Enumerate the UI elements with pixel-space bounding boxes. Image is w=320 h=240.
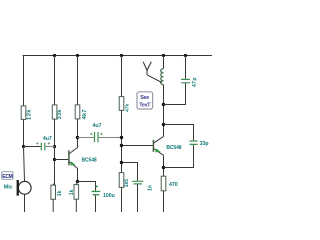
capacitor C4 bypass plates (132, 181, 143, 184)
plus mark input cap right (48, 142, 50, 144)
wire node to mic (24, 147, 25, 182)
svg-text:1k: 1k (69, 189, 75, 195)
capacitor C2 4u7 interstage right lead (99, 137, 122, 139)
node tank junction (162, 103, 165, 106)
plus mark interstage cap right (100, 133, 102, 135)
svg-text:4k7: 4k7 (82, 109, 88, 119)
transistor Q2 emitter diagonal (154, 149, 164, 156)
resistor R4 emitter Q1 (74, 185, 79, 200)
inductor L1 coil (161, 69, 164, 85)
wire 4k7 to collector Q1 (77, 119, 79, 148)
wire feedback loop top (164, 125, 194, 141)
svg-text:1k5: 1k5 (124, 179, 130, 188)
svg-text:33p: 33p (200, 141, 209, 147)
wire feedback loop bottom (164, 145, 194, 168)
wire 47k down to bottom resistor (121, 110, 123, 173)
capacitor C3 100u electro plates (92, 191, 101, 194)
svg-text:See: See (140, 95, 149, 101)
wire electro to bottom (95, 195, 97, 212)
node rail col E (162, 54, 165, 57)
transistor Q1 emitter diagonal (69, 162, 77, 169)
wire emitter node to electro cap (78, 182, 96, 191)
capacitor C2 4u7 interstage left lead (78, 137, 94, 139)
wire 33k node into R5 (53, 183, 54, 185)
node base Q1 junction (53, 158, 56, 161)
capacitor C1 4u7 input left lead (24, 146, 41, 148)
transistor Q1 emitter arrow (70, 162, 75, 166)
node mic/cap junction (22, 145, 25, 148)
node rail col C (76, 54, 79, 57)
plus mark interstage cap left (90, 133, 92, 135)
resistor R3 4k7 (75, 105, 80, 119)
electret mic front plate bar (17, 180, 19, 196)
node cap-in junction col D (120, 136, 123, 139)
node input cap junction (53, 145, 56, 148)
svg-text:4u7: 4u7 (93, 123, 102, 129)
svg-text:100u: 100u (103, 193, 115, 199)
resistor R7 bias-bottom col D (119, 173, 124, 188)
svg-text:47k: 47k (124, 103, 130, 112)
wire base lead Q1 (55, 159, 69, 161)
wire emitter Q1 down (77, 168, 79, 182)
wire 12k to mic node (23, 119, 25, 146)
wire rail to R 33k (54, 56, 56, 106)
capacitor C6 tank plates (181, 79, 190, 82)
svg-text:BC548: BC548 (82, 157, 97, 163)
wire coil to collector Q2 (163, 85, 165, 137)
svg-text:1k: 1k (57, 190, 63, 196)
plus mark electro (95, 185, 98, 188)
node collector Q1 / cap junction (76, 136, 79, 139)
node rail col D (120, 54, 123, 57)
transistor Q1 collector diagonal (69, 148, 77, 154)
svg-text:1n: 1n (148, 185, 154, 191)
wire rail to R 47k (121, 56, 123, 98)
plus mark input cap left (36, 142, 38, 144)
wire R5 to bottom (52, 199, 54, 212)
resistor R2 33k (52, 105, 57, 119)
wire emitter Q2 down (163, 155, 165, 176)
transistor Q1 base bar (68, 150, 70, 165)
node rail col B (53, 54, 56, 57)
wire rail to R 4k7 (77, 56, 79, 106)
electret mic M1 circle (18, 181, 31, 194)
resistor R8 470 (161, 176, 166, 191)
svg-text:BC548: BC548 (166, 145, 181, 151)
wire rail to tank cap (185, 56, 187, 79)
svg-text:470: 470 (169, 182, 178, 188)
node base Q2 junction col D (120, 144, 123, 147)
antenna (143, 62, 151, 75)
transistor Q2 collector diagonal (154, 136, 164, 143)
wire 33k down through base node (54, 119, 56, 185)
wire left rail down to R 12k (23, 56, 25, 107)
resistor R5 base-bottom col B (51, 185, 56, 199)
resistor R1 12k (21, 106, 26, 120)
node bypass junction col D (120, 161, 123, 164)
See Text box (137, 92, 153, 109)
wire antenna tap diagonal (147, 75, 162, 83)
wire rail to coil (163, 56, 165, 69)
svg-text:47p: 47p (192, 77, 198, 87)
wire V+ top rail (23, 55, 213, 57)
svg-text:ECM: ECM (2, 174, 12, 180)
capacitor C1 4u7 input plates (41, 143, 45, 151)
wire emitter node into resistor (76, 182, 77, 185)
svg-text:Mic: Mic (4, 185, 13, 191)
transistor Q2 base bar (152, 140, 154, 152)
svg-text:12k: 12k (26, 109, 32, 120)
capacitor C1 4u7 input right lead (45, 146, 54, 148)
capacitor C2 4u7 interstage plates (95, 132, 99, 142)
svg-text:TexT: TexT (139, 103, 151, 109)
wire R7 to bottom (121, 187, 123, 212)
wire base lead Q2 (122, 145, 153, 147)
ECM label box (2, 172, 13, 180)
capacitor C5 33p plates (190, 141, 198, 144)
node feedback junction bottom (162, 166, 165, 169)
wire tank cap to coil node (164, 83, 186, 104)
svg-text:33k: 33k (57, 109, 63, 120)
wire R4 to bottom (75, 199, 77, 212)
resistor R6 47k (119, 97, 124, 111)
wire bypass cap to bottom (137, 184, 139, 212)
wire bypass branch (122, 163, 138, 181)
node rail col F (184, 54, 187, 57)
transistor Q2 emitter arrow (155, 148, 160, 152)
wire mic to bottom edge (24, 194, 26, 212)
svg-text:4u7: 4u7 (43, 136, 52, 142)
node emitter Q1 junction (76, 180, 79, 183)
wire R8 to bottom (163, 191, 165, 212)
node feedback junction top (162, 123, 165, 126)
